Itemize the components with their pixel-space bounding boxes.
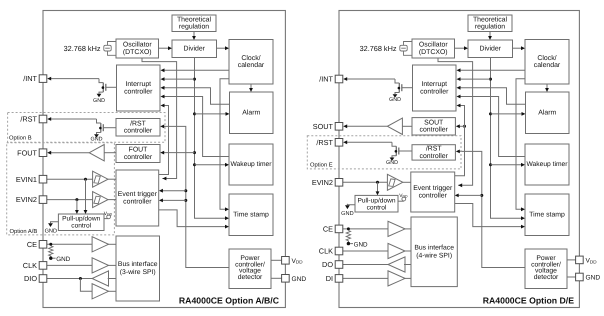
- svg-text:Option A/B: Option A/B: [10, 228, 38, 235]
- svg-text:Event trigger: Event trigger: [413, 185, 453, 192]
- wire SOUT controller to buffer (D/E): [402, 125, 412, 127]
- arrowhead into /INT pin (D/E): [343, 77, 347, 81]
- arrowhead into event trigger input 1: [159, 189, 163, 193]
- title RA4000CE Option A/B/C: [179, 296, 280, 306]
- wire clock/calendar to time stamp (D/E): [516, 79, 525, 210]
- svg-text:Alarm: Alarm: [242, 109, 260, 116]
- arrowhead into SOUT controller (D/E): [456, 124, 460, 128]
- pin /RST (D/E): [335, 139, 343, 147]
- svg-text:controller: controller: [124, 154, 153, 161]
- pin SOUT (D/E): [335, 123, 343, 131]
- arrowhead into interrupt (wakeup) (D/E): [457, 95, 461, 99]
- wire SOUT buffer to pin (D/E): [347, 125, 387, 127]
- label /INT (D/E): [319, 75, 333, 84]
- label CLK: [23, 261, 37, 270]
- wire DIO pin to buffers: [47, 278, 92, 280]
- wire event trigger to time stamp: [159, 210, 226, 227]
- arrowhead into /RST pin: [47, 117, 51, 121]
- svg-text:controller: controller: [420, 88, 449, 95]
- svg-text:Divider: Divider: [184, 45, 206, 52]
- svg-text:GND: GND: [56, 256, 70, 263]
- wire EVIN2 pin to schmitt buffer: [47, 199, 93, 201]
- svg-text:regulation: regulation: [179, 24, 209, 31]
- arrowhead into time stamp (event): [225, 225, 229, 229]
- arrowhead into event trigger (osc) (D/E): [458, 183, 462, 187]
- wire /RST pin to transistor (D/E): [347, 141, 392, 143]
- svg-text:/RST: /RST: [316, 138, 333, 147]
- svg-text:(3-wire SPI): (3-wire SPI): [120, 269, 156, 276]
- svg-text:regulation: regulation: [475, 24, 505, 31]
- arrowhead into divider (D/E): [464, 46, 468, 50]
- arrowhead into SOUT pin (D/E): [343, 124, 347, 128]
- dashed box Option B: [8, 113, 165, 143]
- box /RST controller (D/E): [412, 145, 455, 160]
- svg-text:VDD: VDD: [399, 193, 408, 199]
- wire DI buffer to bus interface (D/E): [404, 277, 411, 279]
- wire CLK pin to buffer: [47, 264, 92, 266]
- label DI (D/E): [326, 274, 333, 283]
- svg-text:CLK: CLK: [319, 247, 333, 256]
- wire pull-up control to GND: [51, 221, 59, 224]
- wire event vertical to SOUT controller (D/E): [459, 125, 464, 127]
- svg-text:Time stamp: Time stamp: [233, 211, 269, 218]
- crystal X1: [104, 42, 116, 56]
- wire clock/calendar to alarm (D/E): [546, 84, 548, 88]
- box power controller / voltage detector: [229, 249, 271, 289]
- pin FOUT: [39, 149, 47, 157]
- svg-text:/RST: /RST: [20, 115, 37, 124]
- pin /INT (D/E): [335, 75, 343, 83]
- wire clock/calendar to alarm: [250, 84, 252, 88]
- label EVIN2: [16, 195, 37, 204]
- svg-text:SOUT: SOUT: [424, 119, 444, 126]
- box event trigger controller (D/E): [411, 172, 455, 212]
- arrowhead into divider: [168, 46, 172, 50]
- junction divider-wakeup: [193, 163, 196, 166]
- svg-text:calendar: calendar: [238, 62, 265, 69]
- junction DIO input branch: [79, 277, 82, 280]
- wire CLK pin to buffer (D/E): [343, 250, 388, 252]
- junction divider-interrupt: [193, 78, 196, 81]
- box interrupt controller (D/E): [413, 65, 457, 111]
- arrowhead into divider top (D/E): [488, 36, 492, 40]
- pin EVIN2 (D/E): [335, 179, 343, 187]
- arrowhead into /RST pin (D/E): [343, 140, 347, 144]
- svg-text:CE: CE: [27, 240, 37, 249]
- label GND pin: [292, 276, 307, 283]
- pin EVIN1: [39, 175, 47, 183]
- wire DIO input buffer to bus interface: [108, 290, 116, 292]
- svg-text:/INT: /INT: [23, 74, 37, 83]
- buffer CE input (D/E): [388, 221, 405, 236]
- svg-text:DI: DI: [326, 274, 333, 283]
- arrowhead into pull-up control (EVIN1): [84, 210, 88, 214]
- pin GND (D/E): [576, 273, 584, 281]
- ground at CE resistor: [49, 256, 71, 263]
- label DIO: [24, 274, 37, 283]
- svg-text:controller: controller: [124, 128, 153, 135]
- arrowhead into interrupt (divider): [161, 77, 165, 81]
- wire CE pin to buffer (D/E): [343, 228, 388, 230]
- arrowhead into divider top: [192, 36, 196, 40]
- svg-text:/RST: /RST: [130, 120, 146, 127]
- junction divider-interrupt (D/E): [489, 78, 492, 81]
- wire CLK buffer to bus interface (D/E): [404, 250, 411, 252]
- svg-text:Wakeup timer: Wakeup timer: [526, 161, 568, 168]
- buffer FOUT output driver: [89, 145, 104, 161]
- resistor CE pulldown (D/E): [346, 231, 350, 243]
- arrowhead into event trigger (osc): [162, 177, 166, 181]
- arrowhead into interrupt (clock): [161, 68, 165, 72]
- arrowhead into time stamp (clock) (D/E): [521, 207, 525, 211]
- label CE: [27, 240, 37, 249]
- arrowhead into time stamp (divider) (D/E): [521, 216, 525, 220]
- title RA4000CE Option D/E: [483, 296, 574, 306]
- arrowhead into alarm (divider): [226, 112, 230, 116]
- label EVIN2 (D/E): [312, 178, 333, 187]
- buffer SOUT output driver (D/E): [387, 118, 402, 134]
- junction vdet-event (D/E): [480, 194, 483, 197]
- svg-text:32.768 kHz: 32.768 kHz: [360, 44, 397, 53]
- ground at CE resistor (D/E): [347, 241, 368, 248]
- svg-text:Wakeup timer: Wakeup timer: [230, 161, 272, 168]
- wire FOUT buffer to pin: [51, 152, 89, 154]
- svg-text:Interrupt: Interrupt: [421, 81, 447, 88]
- box theoretical regulation (D/E): [468, 15, 512, 32]
- svg-text:(DTCXO): (DTCXO): [123, 49, 152, 56]
- wire voltage detector to /RST controller and event trigger: [164, 126, 229, 267]
- label 32.768 kHz (D/E): [360, 44, 397, 53]
- wire /INT pin to transistor (D/E): [347, 78, 395, 80]
- schmitt buffer EVIN2 (D/E): [387, 174, 402, 190]
- box SOUT controller (D/E): [412, 118, 455, 135]
- svg-text:GND: GND: [93, 98, 105, 104]
- svg-text:controller: controller: [123, 198, 152, 205]
- pin VDD (D/E): [576, 256, 584, 264]
- buffer DIO output driver: [92, 271, 108, 286]
- arrowhead into /RST controller: [160, 125, 164, 129]
- svg-text:VDD: VDD: [586, 258, 598, 265]
- arrowhead into interrupt (alarm): [161, 86, 165, 90]
- svg-text:CE: CE: [323, 225, 333, 234]
- wire EVIN2 pin to schmitt buffer (D/E): [343, 181, 388, 183]
- svg-text:GND: GND: [386, 160, 398, 166]
- wire divider output bus: [195, 58, 226, 219]
- svg-text:RA4000CE Option A/B/C: RA4000CE Option A/B/C: [179, 296, 280, 306]
- junction divider-alarm: [193, 112, 196, 115]
- box wakeup timer: [229, 144, 273, 185]
- box power controller / voltage detector (D/E): [525, 249, 567, 289]
- svg-text:GND: GND: [586, 275, 601, 282]
- dashed box Option E: [307, 136, 461, 169]
- box /RST controller: [116, 119, 160, 137]
- svg-text:GND: GND: [341, 211, 353, 217]
- svg-text:control: control: [367, 204, 387, 211]
- label EVIN1: [16, 175, 37, 184]
- junction vdet-event2: [184, 199, 187, 202]
- wire power controller to GND pin: [271, 277, 282, 279]
- VDD symbol at pull-up control: [104, 211, 113, 219]
- buffer DO output driver (D/E): [388, 257, 405, 272]
- wire divider to interrupt controller: [164, 78, 194, 80]
- svg-text:EVIN2: EVIN2: [16, 195, 37, 204]
- junction CE pulldown: [49, 243, 52, 246]
- svg-text:GND: GND: [354, 241, 368, 248]
- svg-text:Oscillator: Oscillator: [419, 42, 448, 49]
- arrowhead into interrupt (alarm) (D/E): [457, 86, 461, 90]
- svg-text:GND: GND: [45, 229, 57, 235]
- wire divider to clock/calendar: [217, 47, 226, 49]
- wire alarm to interrupt controller (D/E): [460, 88, 525, 105]
- box clock/calendar: [229, 40, 273, 85]
- wire wakeup timer to interrupt controller (D/E): [460, 97, 525, 157]
- wire divider to FOUT controller: [164, 152, 195, 154]
- wire FOUT controller to buffer: [104, 152, 116, 154]
- wire event trigger to time stamp (D/E): [455, 204, 522, 227]
- svg-text:Theoretical: Theoretical: [473, 16, 508, 23]
- svg-text:controller: controller: [419, 192, 448, 199]
- arrowhead into FOUT controller: [160, 151, 164, 155]
- label CE (D/E): [323, 225, 333, 234]
- junction divider-FOUT: [193, 151, 196, 154]
- label 32.768 kHz: [64, 44, 101, 53]
- wire divider to alarm (D/E): [491, 113, 522, 115]
- transistor /INT open-drain with GND: [93, 79, 116, 104]
- svg-text:VDD: VDD: [104, 211, 113, 217]
- box alarm (D/E): [526, 92, 570, 134]
- wire EVIN2 to pull-up/down control (D/E): [377, 182, 379, 192]
- wire DIO output buffer to bus interface: [108, 278, 116, 280]
- pin /INT: [39, 75, 47, 83]
- pin CE (D/E): [335, 225, 343, 233]
- arrowhead into pull-up control (D/E): [376, 191, 380, 195]
- pin DI (D/E): [335, 275, 343, 283]
- wire EVIN2 to pull-up/down control: [76, 200, 78, 211]
- box wakeup timer (D/E): [525, 144, 569, 185]
- svg-text:Pull-up/down: Pull-up/down: [357, 197, 395, 204]
- label CLK (D/E): [319, 247, 333, 256]
- svg-text:Clock/: Clock/: [241, 55, 260, 62]
- arrowhead into time stamp (clock): [225, 207, 229, 211]
- arrowhead into interrupt (clock) (D/E): [457, 68, 461, 72]
- wire event trigger to interrupt controller (D/E): [455, 106, 465, 176]
- svg-text:Bus interface: Bus interface: [118, 261, 158, 268]
- svg-text:Theoretical: Theoretical: [177, 16, 212, 23]
- svg-text:Clock/: Clock/: [537, 55, 556, 62]
- arrowhead into wakeup timer (D/E): [521, 163, 525, 167]
- wire pull-up control to GND (D/E): [347, 204, 355, 206]
- wire oscillator to event trigger controller: [142, 58, 177, 179]
- wire EVIN2 buffer to event trigger: [108, 199, 116, 201]
- svg-text:(DTCXO): (DTCXO): [419, 49, 448, 56]
- wire DIO to input buffer: [80, 279, 92, 292]
- box time stamp (D/E): [525, 194, 569, 236]
- wire theoretical regulation to divider: [193, 32, 195, 37]
- wire event trigger to interrupt controller: [159, 106, 169, 175]
- transistor /RST open-drain with GND: [91, 119, 116, 143]
- svg-text:CLK: CLK: [23, 261, 37, 270]
- arrowhead into time stamp (divider): [225, 216, 229, 220]
- wire divider output bus (D/E): [491, 58, 522, 219]
- wire power controller to VDD pin: [271, 259, 282, 261]
- wire EVIN1 pin to schmitt buffer: [47, 178, 93, 180]
- svg-text:Alarm: Alarm: [538, 109, 556, 116]
- buffer CLK input: [92, 258, 108, 273]
- label /RST (D/E): [316, 138, 333, 147]
- box oscillator (DTCXO): [116, 39, 159, 58]
- RA4000CE Option A/B/C outer boundary box: [43, 11, 285, 308]
- svg-text:(4-wire SPI): (4-wire SPI): [416, 252, 452, 259]
- label GND pin (D/E): [586, 275, 601, 282]
- ground at pull-up control (D/E): [341, 204, 353, 217]
- wire voltage detector to /RST controller and event trigger (D/E): [459, 151, 525, 267]
- wire divider to wakeup timer (D/E): [491, 164, 522, 166]
- buffer DI input (D/E): [388, 271, 405, 286]
- arrowhead into interrupt (event) (D/E): [457, 104, 461, 108]
- wire power controller to GND pin (D/E): [567, 276, 576, 278]
- box theoretical regulation: [172, 15, 216, 32]
- svg-text:Option B: Option B: [9, 135, 32, 142]
- transistor /INT open-drain with GND (D/E): [389, 79, 412, 103]
- pin DIO: [39, 275, 47, 283]
- wire CLK buffer to bus interface: [108, 264, 116, 266]
- svg-text:RA4000CE Option D/E: RA4000CE Option D/E: [483, 296, 574, 306]
- wire CE buffer to bus interface (D/E): [404, 228, 411, 230]
- box alarm: [230, 92, 274, 134]
- pin GND: [282, 275, 290, 283]
- arrowhead into alarm (divider) (D/E): [522, 112, 526, 116]
- crystal X1 (D/E): [400, 42, 412, 56]
- label /RST: [20, 115, 37, 124]
- box pull-up/down control: [58, 214, 104, 231]
- label VDD pin: [292, 258, 304, 265]
- wire divider to alarm: [195, 113, 226, 115]
- svg-text:EVIN2: EVIN2: [312, 178, 333, 187]
- box bus interface 3-wire SPI: [116, 236, 160, 301]
- label FOUT: [17, 148, 37, 157]
- wire /RST pin to transistor: [51, 118, 97, 120]
- pin CE: [39, 241, 47, 249]
- wire clock/calendar to time stamp: [220, 79, 229, 210]
- dashed box Option A/B: [7, 143, 115, 235]
- svg-text:/INT: /INT: [319, 75, 333, 84]
- wire oscillator output to divider: [159, 47, 169, 49]
- pin VDD: [282, 257, 290, 265]
- arrowhead into interrupt (divider) (D/E): [457, 77, 461, 81]
- svg-text:GND: GND: [292, 276, 307, 283]
- box oscillator (DTCXO) (D/E): [412, 39, 455, 58]
- junction event-SOUT (D/E): [463, 125, 466, 128]
- transistor /RST open-drain with GND (D/E): [386, 142, 412, 166]
- box divider (D/E): [468, 40, 513, 58]
- schmitt buffer EVIN1: [93, 171, 108, 187]
- arrowhead into FOUT pin: [47, 151, 51, 155]
- RA4000CE Option D/E outer boundary box: [339, 11, 579, 308]
- arrowhead into alarm top (D/E): [545, 88, 549, 92]
- arrowhead into /RST controller (D/E): [456, 150, 460, 154]
- label DO (D/E): [322, 260, 333, 269]
- label Option B: [9, 135, 32, 142]
- svg-text:detector: detector: [534, 274, 559, 281]
- arrowhead into wakeup timer: [225, 163, 229, 167]
- arrowhead into clock/calendar (D/E): [521, 46, 525, 50]
- svg-text:GND: GND: [389, 97, 401, 103]
- arrowhead into /INT pin: [47, 77, 51, 81]
- svg-text:Divider: Divider: [480, 45, 502, 52]
- svg-text:controller: controller: [420, 153, 449, 160]
- svg-text:EVIN1: EVIN1: [16, 175, 37, 184]
- arrowhead into clock/calendar: [225, 46, 229, 50]
- VDD symbol at pull-up control (D/E): [398, 193, 408, 201]
- pin CLK (D/E): [335, 247, 343, 255]
- ground at pull-up control: [45, 222, 57, 235]
- arrowhead into event trigger input 2: [159, 199, 163, 203]
- wire /INT pin to transistor: [51, 78, 99, 80]
- wire theoretical regulation to divider (D/E): [489, 32, 491, 37]
- arrowhead into pull-up control (EVIN2): [75, 210, 79, 214]
- svg-text:Interrupt: Interrupt: [125, 81, 151, 88]
- wire divider to clock/calendar (D/E): [513, 47, 522, 49]
- buffer CE input: [92, 237, 108, 252]
- svg-text:detector: detector: [238, 274, 263, 281]
- svg-text:FOUT: FOUT: [17, 148, 37, 157]
- box event trigger controller: [116, 170, 159, 226]
- buffer CLK input (D/E): [388, 243, 405, 258]
- buffer DIO input: [92, 284, 108, 299]
- label /INT: [23, 74, 37, 83]
- box interrupt controller: [117, 65, 161, 111]
- svg-text:VDD: VDD: [292, 258, 304, 265]
- wire divider to interrupt controller (D/E): [460, 78, 490, 80]
- wire wakeup timer to interrupt controller: [164, 97, 229, 157]
- svg-text:DIO: DIO: [24, 274, 37, 283]
- pin DO (D/E): [335, 261, 343, 269]
- svg-text:Time stamp: Time stamp: [529, 211, 565, 218]
- svg-text:GND: GND: [91, 137, 103, 143]
- wire divider to wakeup timer: [195, 164, 226, 166]
- svg-text:controller: controller: [420, 127, 449, 134]
- wire vdet to event trigger input 1: [162, 190, 185, 192]
- box FOUT controller: [116, 145, 160, 163]
- wire clock/calendar to interrupt controller: [164, 69, 229, 71]
- wire DO buffer to pin (D/E): [343, 264, 388, 266]
- svg-text:calendar: calendar: [534, 62, 561, 69]
- wire EVIN1 buffer to event trigger: [108, 178, 116, 180]
- arrowhead into alarm top: [249, 88, 253, 92]
- box divider: [172, 40, 217, 58]
- wire bus interface to DO buffer (D/E): [404, 264, 411, 266]
- box bus interface 4-wire SPI (D/E): [411, 217, 457, 287]
- pin /RST: [39, 115, 47, 123]
- junction CE pulldown (D/E): [347, 227, 350, 230]
- junction EVIN2 pull-up (D/E): [376, 181, 379, 184]
- pin CLK: [39, 262, 47, 270]
- junction divider-alarm (D/E): [489, 112, 492, 115]
- wire EVIN1 to pull-up/down control: [85, 179, 87, 210]
- box clock/calendar (D/E): [525, 40, 569, 85]
- label Option A/B: [10, 228, 38, 235]
- junction EVIN2 pull-up: [75, 198, 78, 201]
- schmitt buffer EVIN2: [93, 192, 108, 208]
- wire oscillator to event trigger controller (D/E): [438, 58, 473, 185]
- wire vdet to event trigger input 2: [162, 199, 185, 201]
- arrowhead into time stamp (event) (D/E): [521, 225, 525, 229]
- svg-text:FOUT: FOUT: [129, 147, 149, 154]
- box pull-up/down control (D/E): [355, 195, 398, 212]
- wire oscillator output to divider (D/E): [455, 47, 465, 49]
- wire clock/calendar to interrupt controller (D/E): [460, 69, 525, 71]
- junction vdet-event1: [184, 189, 187, 192]
